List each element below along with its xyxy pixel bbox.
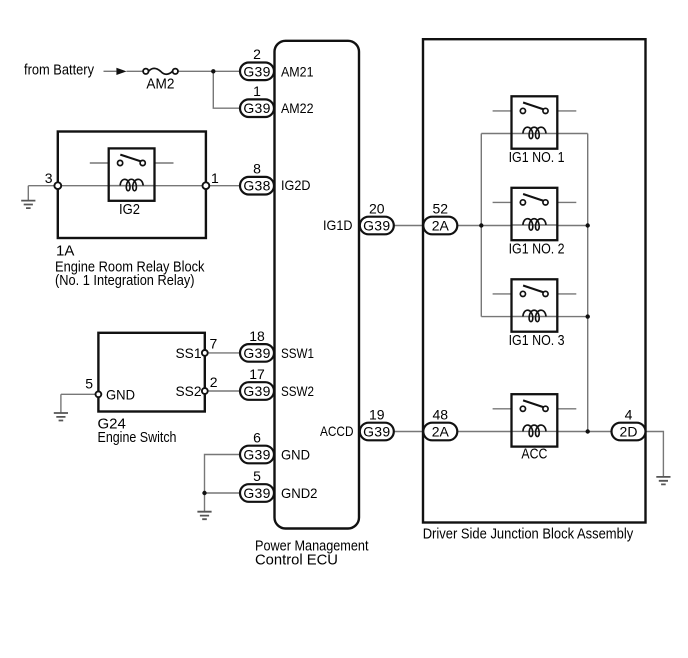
svg-text:3: 3 [45, 170, 53, 186]
svg-text:1A: 1A [56, 243, 74, 260]
svg-text:20: 20 [369, 200, 385, 216]
svg-text:IG1D: IG1D [323, 217, 353, 233]
svg-text:G39: G39 [243, 63, 270, 79]
svg-text:G39: G39 [363, 424, 390, 440]
svg-text:5: 5 [85, 376, 93, 392]
svg-text:IG2: IG2 [119, 201, 140, 218]
svg-text:2A: 2A [432, 218, 450, 234]
svg-text:1: 1 [253, 83, 261, 99]
svg-text:G39: G39 [243, 383, 270, 399]
svg-text:G39: G39 [243, 100, 270, 116]
svg-text:Control ECU: Control ECU [255, 551, 338, 568]
svg-text:from Battery: from Battery [24, 61, 94, 78]
svg-text:ACCD: ACCD [320, 423, 354, 439]
svg-text:IG1 NO. 3: IG1 NO. 3 [509, 332, 565, 349]
svg-text:7: 7 [210, 335, 218, 351]
svg-text:2A: 2A [432, 424, 450, 440]
svg-text:GND2: GND2 [281, 485, 318, 501]
svg-text:AM22: AM22 [281, 100, 314, 116]
svg-text:SSW1: SSW1 [281, 345, 314, 361]
svg-text:AM21: AM21 [281, 63, 314, 79]
svg-text:G39: G39 [363, 218, 390, 234]
svg-text:GND: GND [281, 447, 310, 463]
svg-text:19: 19 [369, 406, 385, 422]
svg-text:G38: G38 [243, 178, 270, 194]
svg-text:IG1 NO. 2: IG1 NO. 2 [509, 240, 565, 257]
svg-text:G39: G39 [243, 485, 270, 501]
svg-text:4: 4 [625, 406, 633, 422]
svg-text:SS1: SS1 [176, 345, 202, 361]
svg-text:Engine Switch: Engine Switch [98, 429, 177, 446]
svg-text:2D: 2D [620, 424, 638, 440]
svg-text:8: 8 [253, 161, 261, 177]
svg-text:48: 48 [433, 406, 449, 422]
svg-text:AM2: AM2 [146, 75, 174, 92]
svg-text:1: 1 [211, 170, 219, 186]
svg-text:52: 52 [433, 200, 449, 216]
svg-text:2: 2 [253, 46, 261, 62]
svg-text:IG2D: IG2D [281, 177, 311, 193]
svg-text:SS2: SS2 [176, 383, 202, 399]
svg-text:17: 17 [249, 366, 265, 382]
svg-text:ACC: ACC [521, 446, 547, 463]
svg-text:G39: G39 [243, 345, 270, 361]
svg-text:G39: G39 [243, 447, 270, 463]
svg-text:GND: GND [106, 386, 135, 402]
svg-text:(No. 1 Integration Relay): (No. 1 Integration Relay) [55, 272, 195, 289]
svg-text:SSW2: SSW2 [281, 383, 314, 399]
svg-text:Driver Side Junction Block Ass: Driver Side Junction Block Assembly [423, 526, 634, 543]
svg-text:IG1 NO. 1: IG1 NO. 1 [509, 149, 565, 166]
svg-text:2: 2 [210, 374, 218, 390]
svg-text:6: 6 [253, 429, 261, 445]
svg-text:18: 18 [249, 328, 265, 344]
svg-text:5: 5 [253, 468, 261, 484]
